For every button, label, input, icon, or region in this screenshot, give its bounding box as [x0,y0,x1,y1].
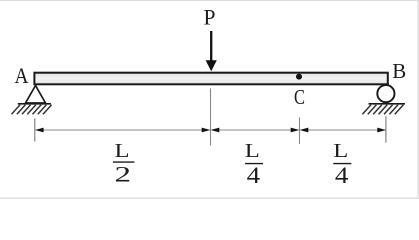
dimension line C to B [301,129,386,131]
extension line at B [385,116,387,142]
dimension line A to midspan [36,129,210,131]
fraction L/4 (second) bar [333,163,351,165]
svg-text:L: L [333,140,348,162]
pin support at A (triangle) [26,86,46,104]
svg-text:L: L [245,140,260,162]
hatching at A [12,105,52,114]
hatching at B [362,105,403,114]
beam AB [34,73,387,85]
frame border bottom [0,197,419,199]
svg-text:4: 4 [247,163,261,188]
dimension line midspan to C [212,129,299,131]
svg-text:P: P [204,4,216,29]
fraction L/2 bar [113,161,134,163]
frame border top [0,0,419,2]
frame border right [417,0,419,199]
svg-text:4: 4 [335,163,349,188]
roller support at B (circle) [377,85,394,102]
svg-text:A: A [15,63,29,88]
extension line at C [299,118,301,145]
fraction L/4 (first) bar [245,163,263,165]
extension line at midspan [210,88,212,145]
load P arrow [210,31,212,62]
svg-text:C: C [294,85,305,109]
ground line at B [369,103,405,105]
extension line at A [34,118,36,141]
svg-text:2: 2 [115,161,132,186]
svg-text:B: B [392,59,406,83]
svg-text:L: L [115,140,130,162]
ground line at A [18,103,51,105]
node C dot on beam [296,74,302,80]
